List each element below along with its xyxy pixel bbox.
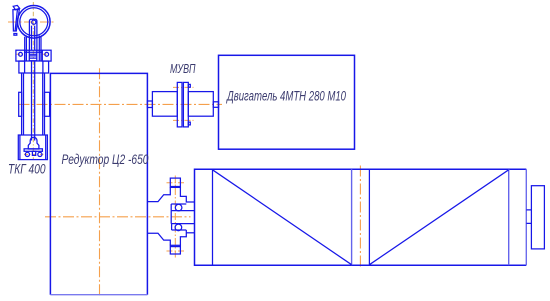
brake rods through yoke [29,50,37,61]
drum coupling bolt top [175,204,182,211]
drum coupling boss top inner line [170,186,180,188]
brake base bolt left [25,152,29,156]
brake clevis rod [29,19,37,50]
brake left tab [19,92,22,116]
centerline coupling bolt bottom [173,119,194,121]
centerline brake wheel horizontal [8,21,55,23]
coupling MUVP flange disc right [183,82,188,127]
drum middle wall left [351,169,353,265]
brake wide block inner verticals [25,61,43,73]
drum right edge [525,169,527,265]
brake bottom box inner walls [20,135,46,160]
drum coupling lower-left outline [148,233,170,245]
brake wheel inner [20,8,48,36]
brake pin [32,20,36,24]
centerline drum coupling vertical [174,176,176,259]
centerline brake yoke bolt right [43,53,51,55]
brake base bar [24,149,42,152]
drum coupling boss bottom [170,245,180,254]
brake rod inner pair [32,26,35,51]
coupling MUVP hub right [188,92,213,117]
drum diagonal right [369,170,508,265]
svg-text:Редуктор Ц2 -650: Редуктор Ц2 -650 [62,151,149,167]
brake spring housing left wall [22,73,24,135]
brake spring housing right wall [43,73,45,135]
gearbox bottom edge [50,294,147,296]
coupling MUVP shaft stub left [147,101,152,108]
brake lever arm inner line [15,10,17,31]
centerline drum coupling boss bottom [167,250,185,252]
brake right tab [45,92,50,116]
brake yoke left block [16,50,25,61]
drum body [195,169,527,265]
brake wide block [19,61,49,73]
drum coupling lower-right staircase [180,230,186,245]
centerline drum coupling boss top [167,182,185,184]
coupling MUVP shaft stub right [213,102,218,108]
brake base bolt right [38,152,42,156]
drum inner wall left [212,169,214,265]
centerline brake vertical rod [32,2,34,159]
drum coupling bolt bottom [175,224,182,231]
brake nut stack [29,54,37,61]
drum coupling upper-right staircase [180,187,194,202]
drum coupling upper-left outline [148,187,170,201]
brake center rod [32,61,35,141]
svg-text:Двигатель 4МТН 280 М10: Двигатель 4МТН 280 М10 [226,88,347,103]
coupling MUVP hub left [152,92,177,117]
brake lever top tab [13,5,19,9]
drum coupling upper bolt plate [171,204,186,211]
svg-text:ТКГ 400: ТКГ 400 [8,162,46,177]
coupling MUVP flange disc left [177,82,182,127]
centerline main shaft axis horizontal [19,103,223,105]
brake lever bottom pad [14,34,17,36]
brake base center block [32,151,35,155]
centerline drum vertical [359,166,361,269]
drum middle wall right [368,169,370,265]
svg-text:МУВП: МУВП [170,61,196,76]
gearbox body [50,73,147,294]
brake wheel outer [18,6,51,39]
drum inner wall right [508,169,510,265]
brake lever arm [13,9,19,31]
centerline brake yoke bolt left [16,53,24,55]
centerline coupling bolt top [173,86,194,88]
brake spring seat dome [28,137,39,149]
coupling MUVP bolt head bottom [188,122,190,125]
centerline gearbox vertical [99,68,101,297]
motor body [219,55,355,149]
drum coupling lower stair tick [186,232,194,234]
brake bottom box [18,135,47,160]
brake arm left [25,36,27,61]
brake arm right [39,36,41,61]
brake yoke crossbars [25,50,43,52]
drum right bearing block [531,186,544,249]
drum coupling boss bottom inner line [170,246,180,248]
drum coupling boss top [170,178,180,187]
drum right shaft tab [526,210,531,224]
drum diagonal left [213,170,352,265]
brake yoke right block [42,50,51,61]
coupling MUVP bolt head top [188,84,190,87]
drum coupling hub into drum [171,211,194,224]
drum coupling lower bolt plate [172,224,187,230]
brake yoke bolt left [19,52,23,56]
brake yoke bolt right [45,52,49,56]
centerline drum shaft axis at gearbox [45,216,191,218]
centerline brake base bolts [24,153,43,155]
